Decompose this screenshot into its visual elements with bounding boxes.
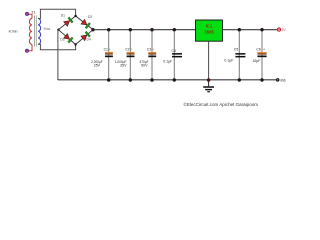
svg-text:T1: T1 [31, 9, 36, 14]
wire C2 vertical [129, 30, 131, 80]
svg-text:50V: 50V [141, 63, 148, 67]
svg-text:©ElecCircuit.com Apichet Garai: ©ElecCircuit.com Apichet Garaipoom [184, 102, 259, 107]
node C2 bottom [129, 78, 132, 81]
node C1 top [107, 28, 110, 31]
svg-text:+: + [263, 48, 265, 52]
svg-text:35V: 35V [120, 63, 127, 67]
svg-text:0.1µF: 0.1µF [224, 58, 233, 62]
svg-text:9Vac: 9Vac [44, 27, 51, 31]
svg-text:+: + [130, 48, 132, 52]
wire C5 vertical [238, 30, 240, 80]
svg-text:D3: D3 [60, 38, 64, 42]
svg-text:C1: C1 [104, 47, 108, 51]
svg-text:D2: D2 [88, 15, 92, 19]
svg-text:5V: 5V [282, 28, 287, 32]
transformer core [35, 16, 37, 47]
node C6 bottom [260, 78, 263, 81]
svg-text:D1: D1 [61, 14, 65, 18]
transformer T1 primary red stub top [27, 14, 32, 18]
svg-text:C2: C2 [125, 47, 129, 51]
AC Main terminal dot top [25, 12, 28, 15]
wire ground bottom rail [58, 79, 276, 81]
capacitor C2 [115, 47, 135, 67]
node bridge top corner [74, 15, 76, 17]
transformer T1 primary red stub bottom [27, 44, 32, 50]
node bridge bottom corner [74, 43, 76, 45]
svg-text:GND: GND [280, 78, 286, 82]
wire bridge left corner down to ground rail [57, 30, 60, 80]
capacitor C3 [140, 47, 157, 67]
bridge rectifier diamond wires [58, 16, 93, 45]
svg-text:7805: 7805 [204, 30, 214, 35]
GND output terminal [276, 78, 280, 82]
wire secondary bottom to bridge bottom corner [38, 44, 76, 50]
node C3 bottom [150, 78, 153, 81]
transformer T1 primary coil [29, 18, 32, 44]
svg-text:C6: C6 [256, 47, 260, 51]
wire IC1 ground pin [208, 41, 210, 80]
svg-text:IC1: IC1 [206, 23, 213, 28]
diode D1 [64, 17, 74, 27]
wire C3 vertical [151, 30, 153, 80]
node C2 top [129, 28, 132, 31]
node bridge right corner [91, 28, 94, 31]
node C3 top [150, 28, 153, 31]
diode D4 [81, 31, 91, 41]
wire secondary top to bridge top corner [38, 9, 76, 18]
svg-text:0.1µF: 0.1µF [163, 59, 172, 63]
wire top rail bridge to IC1 [93, 29, 196, 31]
IC1 7805 regulator [196, 20, 223, 41]
capacitor C1 [91, 47, 113, 67]
node earth junction [207, 78, 211, 82]
svg-text:C3: C3 [147, 47, 151, 51]
node C4 bottom [173, 78, 176, 81]
wire IC1 output rail [223, 29, 278, 31]
AC Main terminal dot bottom [25, 49, 28, 52]
svg-text:C5: C5 [234, 47, 238, 51]
node bridge left corner [57, 29, 59, 31]
capacitor C5 [224, 47, 245, 62]
svg-text:+: + [109, 48, 111, 52]
node C6 top [260, 28, 263, 31]
5V output terminal [277, 28, 280, 31]
diode D3 [63, 33, 73, 43]
node C5 top [238, 28, 241, 31]
node C4 top [173, 28, 176, 31]
wire C1 vertical [108, 30, 110, 80]
svg-text:AC Main: AC Main [9, 30, 18, 34]
node C5 bottom [238, 78, 241, 81]
svg-text:10µF: 10µF [252, 59, 260, 63]
svg-text:+: + [152, 48, 154, 52]
wire C4 vertical [173, 30, 175, 80]
transformer T1 secondary coil [38, 18, 41, 44]
diode D2 [81, 19, 91, 29]
svg-text:C4: C4 [172, 49, 176, 53]
capacitor C6 [252, 47, 266, 63]
node C1 bottom [107, 78, 110, 81]
capacitor C4 [163, 49, 182, 64]
earth ground symbol [203, 80, 214, 92]
wire C6 vertical [261, 30, 263, 80]
svg-text:25V: 25V [94, 63, 101, 67]
svg-text:D4: D4 [87, 38, 91, 42]
